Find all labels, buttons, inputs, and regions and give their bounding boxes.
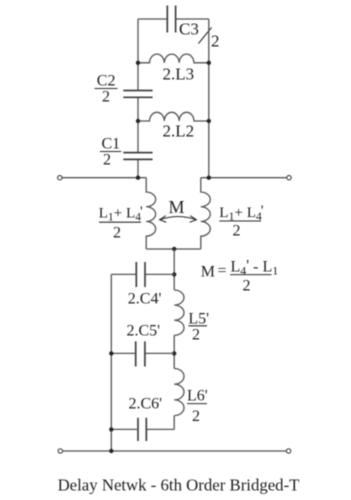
inductor L6'/2: [174, 369, 184, 416]
svg-text:2: 2: [233, 222, 241, 239]
node junction C6' branch left: [109, 427, 113, 431]
wire main right: [201, 177, 287, 179]
inductor left coupled (L1+L4')/2: [146, 178, 155, 249]
node junction 2.L3 left: [136, 61, 140, 65]
wire C4' branch right: [145, 273, 174, 275]
wire left rail lower: [137, 159, 139, 177]
label L6'/2: [187, 388, 208, 426]
svg-text:2.C6': 2.C6': [129, 396, 163, 413]
wire center mid stub: [173, 335, 175, 368]
node junction coupling center: [172, 247, 176, 251]
node junction main-left rail: [136, 176, 140, 180]
svg-text:2: 2: [192, 408, 200, 425]
inductor L5'/2: [174, 290, 184, 335]
wire top-right segment: [176, 18, 209, 20]
svg-text:2: 2: [192, 327, 200, 344]
svg-text:C2: C2: [97, 73, 116, 90]
svg-text:2.L2: 2.L2: [163, 122, 195, 141]
wire left rail upper: [137, 19, 139, 91]
label C1/2: [100, 136, 121, 169]
svg-text:2.L3: 2.L3: [163, 65, 195, 84]
node junction C5' branch right: [172, 351, 176, 355]
terminal bottom-left: [58, 449, 62, 453]
terminal output top-right: [287, 176, 291, 180]
svg-text:M: M: [201, 263, 215, 280]
node junction 2.L3 right: [207, 61, 211, 65]
wire center upper stub: [173, 249, 175, 290]
wire C6' branch left: [111, 428, 138, 430]
label L5'/2: [188, 311, 209, 344]
capacitor C1: [123, 153, 152, 160]
inductor 2.L2: [138, 112, 209, 121]
svg-text:2: 2: [243, 278, 251, 295]
wire C4' branch left: [111, 273, 136, 275]
node junction bottom rail: [109, 449, 113, 453]
svg-text:L6': L6': [187, 388, 208, 405]
svg-text:=: =: [218, 263, 227, 280]
capacitor 2.C5': [136, 341, 145, 366]
label C2/2: [95, 73, 118, 106]
node junction C5' branch left: [109, 351, 113, 355]
svg-text:L5': L5': [188, 311, 209, 328]
label left (L1+L4')/2: [99, 203, 143, 242]
inductor right coupled (L1+L4')/2: [201, 178, 210, 249]
node junction main-right rail: [207, 176, 211, 180]
node junction 2.L2 right: [207, 119, 211, 123]
formula M = (L4'-L1)/2: [201, 258, 279, 295]
svg-text:2: 2: [103, 152, 111, 169]
svg-text:2: 2: [102, 89, 110, 106]
label right (L1+L4')/2: [219, 202, 263, 239]
inductor 2.L3: [138, 54, 209, 63]
wire left rail middle: [137, 97, 139, 152]
svg-text:Delay Netwk - 6th Order Bridge: Delay Netwk - 6th Order Bridged-T: [58, 476, 300, 495]
terminal bottom-right: [286, 449, 290, 453]
wire coupling bottom: [146, 248, 201, 250]
terminal input top-left: [58, 176, 62, 180]
svg-text:M: M: [169, 197, 185, 217]
wire C6' branch right: [146, 428, 174, 430]
wire top-left segment: [138, 18, 167, 20]
wire right rail: [208, 19, 210, 178]
svg-text:2.C5': 2.C5': [127, 322, 161, 339]
capacitor 2.C6': [138, 418, 146, 441]
wire main left: [62, 177, 146, 179]
capacitor 2.C4': [136, 262, 145, 287]
label C3/2: [179, 20, 220, 51]
mutual coupling arrow: [160, 216, 197, 223]
svg-text:2.C4': 2.C4': [128, 291, 162, 308]
node junction C4' branch: [172, 272, 176, 276]
node junction 2.L2 left: [136, 119, 140, 123]
wire bottom: [63, 450, 287, 452]
svg-text:C1: C1: [102, 136, 121, 153]
wire C5' branch left: [111, 352, 135, 354]
wire C5' branch right: [145, 352, 174, 354]
wire center bottom stub: [173, 416, 175, 430]
svg-text:C3: C3: [179, 20, 199, 39]
capacitor C3: [167, 6, 175, 33]
svg-text:2: 2: [211, 32, 220, 51]
wire left rail lower section: [110, 274, 112, 451]
capacitor C2: [123, 91, 152, 98]
svg-text:2: 2: [113, 225, 121, 242]
